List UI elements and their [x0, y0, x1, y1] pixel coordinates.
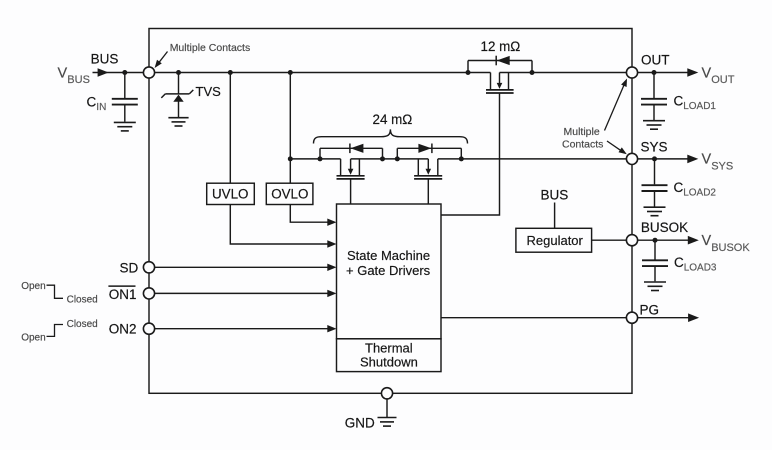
- svg-text:OVLO: OVLO: [271, 187, 308, 202]
- junction CLOAD1 tap: [652, 70, 657, 75]
- svg-text:OUT: OUT: [641, 52, 670, 67]
- svg-text:V: V: [702, 233, 712, 249]
- node BUS contact: [143, 67, 154, 78]
- wire PG external: [638, 317, 697, 319]
- transistor Q1 12 mOhm FET body diode loop: [468, 61, 532, 73]
- svg-text:LOAD1: LOAD1: [683, 101, 716, 112]
- svg-text:State Machine: State Machine: [347, 248, 430, 263]
- block State Machine and Gate Drivers U1: [337, 204, 442, 339]
- body arrow of Q1: [497, 83, 503, 89]
- block UVLO: [207, 183, 255, 204]
- svg-text:C: C: [674, 94, 684, 109]
- wire regulator output to BUSOK: [592, 239, 627, 241]
- svg-text:C: C: [87, 95, 97, 110]
- svg-text:BUS: BUS: [67, 74, 90, 86]
- junction Q1 drain: [466, 70, 471, 75]
- svg-text:GND: GND: [345, 415, 375, 430]
- svg-text:SYS: SYS: [641, 140, 668, 155]
- junction CIN tap: [122, 70, 127, 75]
- svg-text:Shutdown: Shutdown: [360, 354, 418, 369]
- ground under TVS: [168, 118, 188, 126]
- label CLOAD2: [674, 180, 717, 199]
- svg-text:IN: IN: [96, 102, 106, 113]
- arrowhead VBUSOK: [688, 236, 699, 245]
- svg-text:12 mΩ: 12 mΩ: [481, 39, 521, 54]
- junction Q2 drain: [318, 156, 323, 161]
- ground under CLOAD3: [644, 282, 666, 291]
- block Regulator: [516, 228, 592, 252]
- svg-text:UVLO: UVLO: [212, 187, 248, 202]
- ground symbol GND: [378, 418, 397, 427]
- node ON1 contact: [143, 288, 154, 299]
- svg-text:LOAD3: LOAD3: [684, 263, 717, 274]
- ground under CIN: [114, 122, 136, 130]
- label CIN: [87, 95, 107, 114]
- arrowhead UVLO output: [327, 240, 336, 247]
- wire Q3 gate lead: [427, 179, 429, 204]
- svg-text:ON2: ON2: [109, 322, 137, 337]
- svg-text:24 mΩ: 24 mΩ: [373, 112, 413, 127]
- body diode of Q1: [496, 56, 510, 66]
- svg-text:+ Gate Drivers: + Gate Drivers: [346, 263, 431, 278]
- block OVLO: [266, 183, 313, 204]
- arrow to BUS contact: [155, 52, 168, 69]
- arrow to OUT contact: [605, 79, 628, 131]
- svg-text:BUSOK: BUSOK: [711, 242, 750, 254]
- VBUS arrowhead: [98, 68, 109, 77]
- node ON2 contact: [143, 323, 154, 334]
- transistor Q3 24 mOhm FET B symbol: [414, 159, 442, 179]
- brace over 24 mOhm pair: [314, 129, 468, 143]
- wire BUS to regulator: [554, 203, 556, 229]
- svg-text:Multiple: Multiple: [564, 126, 600, 138]
- label CLOAD3: [674, 255, 717, 274]
- transistor Q2 24 mOhm FET A symbol: [337, 159, 365, 179]
- svg-text:TVS: TVS: [196, 84, 222, 99]
- svg-text:C: C: [674, 180, 684, 195]
- capacitor CLOAD2: [642, 159, 668, 207]
- svg-text:LOAD2: LOAD2: [683, 188, 716, 199]
- arrowhead VOUT: [687, 68, 698, 77]
- wire pair row middle segment: [351, 158, 429, 160]
- label CLOAD1: [674, 94, 717, 113]
- svg-text:SD: SD: [120, 260, 139, 275]
- capacitor CLOAD3: [642, 240, 668, 281]
- arrowhead SD input: [327, 264, 336, 271]
- wire PG from state machine: [441, 317, 626, 319]
- IC body outline: [149, 29, 632, 394]
- junction OVLO pair tap: [288, 156, 293, 161]
- svg-text:Closed: Closed: [67, 294, 98, 305]
- label VSYS: [702, 152, 734, 173]
- ground under CLOAD2: [644, 207, 666, 216]
- node PG contact: [626, 312, 637, 323]
- wire Q1 gate lead: [441, 93, 500, 215]
- svg-text:Multiple Contacts: Multiple Contacts: [170, 42, 251, 54]
- wire pair row right segment to SYS: [438, 158, 627, 160]
- capacitor CLOAD1: [641, 73, 667, 121]
- wire GND lead: [386, 399, 388, 417]
- label VBUS: [58, 65, 90, 86]
- wire VBUS input: [93, 72, 144, 74]
- svg-text:Contacts: Contacts: [562, 138, 603, 150]
- node BUSOK contact: [626, 235, 637, 246]
- arrow to SYS contact: [607, 141, 627, 154]
- capacitor CIN: [112, 73, 138, 122]
- svg-text:C: C: [674, 255, 684, 270]
- junction CLOAD2 tap: [652, 156, 657, 161]
- wire ON1 to state machine: [155, 292, 329, 294]
- wire OVLO sense: [289, 73, 291, 184]
- label VBUSOK: [702, 233, 751, 254]
- svg-text:Open: Open: [21, 332, 45, 343]
- wire SYS external: [638, 158, 696, 160]
- wire UVLO output to state machine: [230, 205, 328, 245]
- block Thermal Shutdown: [337, 339, 442, 372]
- body diode of Q2: [350, 144, 364, 154]
- wire BUS rail right segment to OUT: [500, 72, 627, 74]
- junction Q3 drain: [459, 156, 464, 161]
- wire BUSOK external: [638, 239, 697, 241]
- node SYS contact: [626, 153, 637, 164]
- label VOUT: [702, 65, 735, 86]
- svg-text:V: V: [702, 65, 712, 81]
- svg-text:OUT: OUT: [711, 74, 735, 86]
- switch step line ON2: [47, 325, 64, 337]
- svg-text:V: V: [58, 65, 68, 81]
- arrowhead VSYS: [687, 155, 698, 164]
- transistor Q2 24 mOhm FET A body diode loop: [320, 148, 383, 159]
- svg-text:Closed: Closed: [67, 319, 98, 330]
- svg-text:BUS: BUS: [541, 188, 569, 203]
- junction TVS tap: [176, 70, 181, 75]
- wire OUT external: [638, 72, 696, 74]
- junction CLOAD3 tap: [653, 238, 658, 243]
- arrowhead ON2 input: [327, 325, 336, 332]
- ground under CLOAD1: [643, 121, 665, 130]
- body diode of Q3: [418, 144, 432, 154]
- transistor Q3 24 mOhm FET B body diode loop: [397, 148, 461, 159]
- wire SD to state machine: [155, 266, 329, 268]
- transistor Q1 12 mOhm FET symbol: [486, 73, 514, 94]
- svg-text:SYS: SYS: [711, 160, 733, 172]
- svg-text:PG: PG: [640, 303, 660, 318]
- wire pair row left segment: [290, 158, 340, 160]
- arrowhead OVLO output: [327, 219, 336, 226]
- svg-text:BUS: BUS: [91, 52, 119, 67]
- junction Q3 source: [395, 156, 400, 161]
- wire UVLO sense: [229, 73, 231, 184]
- body arrow of Q2: [348, 169, 354, 175]
- node SD contact: [143, 262, 154, 273]
- svg-text:ON1: ON1: [109, 287, 137, 302]
- arrowhead ON1 input: [327, 290, 336, 297]
- junction Q2 source: [380, 156, 385, 161]
- wire ON2 to state machine: [155, 328, 329, 330]
- annotation Multiple Contacts right: [562, 126, 603, 151]
- wire OVLO output to state machine: [290, 205, 328, 223]
- wire BUS rail left segment: [155, 72, 491, 74]
- node GND contact: [381, 388, 392, 399]
- node OUT contact: [626, 67, 637, 78]
- svg-text:Regulator: Regulator: [527, 233, 584, 248]
- svg-text:V: V: [702, 152, 712, 168]
- arrowhead PG output: [688, 313, 699, 322]
- body arrow of Q3: [426, 169, 432, 175]
- TVS zener diode: [161, 73, 193, 118]
- svg-text:BUSOK: BUSOK: [641, 220, 688, 235]
- label ON1 port with overline: [108, 286, 136, 302]
- junction OVLO tap: [288, 70, 293, 75]
- wire Q2 gate lead: [350, 179, 352, 204]
- junction UVLO tap: [228, 70, 233, 75]
- svg-text:Open: Open: [21, 281, 45, 292]
- switch step line ON1: [47, 285, 64, 298]
- junction Q1 source: [530, 70, 535, 75]
